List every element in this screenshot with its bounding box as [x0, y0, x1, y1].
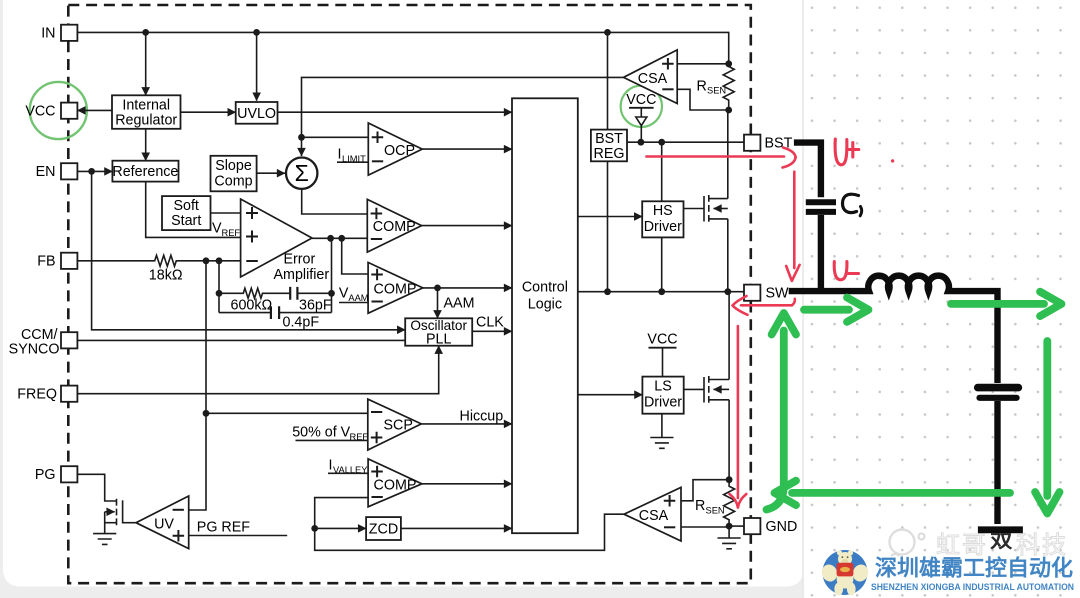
- svg-text:Driver: Driver: [644, 395, 682, 411]
- svg-text:SHENZHEN XIONGBA INDUSTRIAL AU: SHENZHEN XIONGBA INDUSTRIAL AUTOMATION: [871, 582, 1074, 592]
- svg-text:CCM/: CCM/: [21, 327, 58, 343]
- svg-text:VCC: VCC: [647, 331, 677, 347]
- svg-text:SCP: SCP: [384, 418, 413, 434]
- svg-text:COMP: COMP: [374, 477, 417, 493]
- svg-text:REF: REF: [222, 228, 241, 238]
- svg-text:Start: Start: [171, 213, 201, 229]
- svg-text:Comp: Comp: [214, 173, 252, 189]
- svg-text:COMP: COMP: [374, 281, 417, 297]
- svg-text:PG REF: PG REF: [197, 519, 250, 535]
- svg-text:Regulator: Regulator: [115, 113, 177, 129]
- svg-text:SEN: SEN: [707, 86, 726, 96]
- svg-text:UVLO: UVLO: [237, 106, 276, 122]
- svg-text:深圳雄霸工控自动化: 深圳雄霸工控自动化: [875, 556, 1073, 581]
- svg-text:SEN: SEN: [706, 505, 725, 515]
- svg-text:REG: REG: [594, 146, 625, 162]
- svg-text:VCC: VCC: [626, 92, 656, 108]
- svg-text:R: R: [695, 498, 705, 514]
- svg-text:Σ: Σ: [295, 160, 309, 186]
- svg-text:AAM: AAM: [444, 296, 475, 312]
- svg-text:LS: LS: [654, 379, 672, 395]
- svg-text:CLK: CLK: [476, 315, 504, 331]
- svg-text:CSA: CSA: [638, 71, 668, 87]
- svg-text:LIMIT: LIMIT: [342, 154, 366, 164]
- svg-text:R: R: [697, 78, 707, 94]
- svg-text:Amplifier: Amplifier: [274, 267, 330, 283]
- svg-text:SW: SW: [766, 286, 790, 302]
- svg-text:600kΩ: 600kΩ: [231, 298, 273, 314]
- svg-text:VCC: VCC: [25, 104, 55, 120]
- svg-text:Internal: Internal: [122, 98, 170, 114]
- svg-text:PG: PG: [35, 467, 56, 483]
- svg-text:IN: IN: [41, 26, 55, 42]
- svg-text:双: 双: [990, 532, 1013, 552]
- svg-text:ZCD: ZCD: [369, 522, 398, 538]
- svg-text:18kΩ: 18kΩ: [149, 268, 183, 284]
- svg-text:36pF: 36pF: [299, 298, 332, 314]
- svg-text:Hiccup: Hiccup: [460, 408, 504, 424]
- svg-text:V: V: [339, 286, 349, 302]
- svg-text:UV: UV: [154, 516, 174, 532]
- svg-text:VALLEY: VALLEY: [333, 465, 367, 475]
- svg-text:FB: FB: [37, 254, 55, 270]
- svg-text:Driver: Driver: [644, 219, 682, 235]
- svg-text:HS: HS: [653, 203, 673, 219]
- svg-text:Reference: Reference: [112, 164, 178, 180]
- svg-text:BST: BST: [595, 131, 623, 147]
- svg-text:Control: Control: [522, 280, 568, 296]
- svg-text:0.4pF: 0.4pF: [283, 315, 320, 331]
- svg-text:EN: EN: [36, 164, 56, 180]
- svg-text:AAM: AAM: [348, 293, 368, 303]
- svg-text:PLL: PLL: [426, 332, 451, 348]
- svg-text:COMP: COMP: [373, 219, 416, 235]
- svg-text:SYNCO: SYNCO: [9, 342, 60, 358]
- svg-text:50% of V: 50% of V: [292, 425, 350, 441]
- svg-text:I: I: [338, 147, 342, 163]
- svg-text:GND: GND: [766, 519, 798, 535]
- svg-text:OCP: OCP: [384, 143, 415, 159]
- svg-text:Logic: Logic: [528, 297, 562, 313]
- svg-text:CSA: CSA: [639, 508, 669, 524]
- svg-text:REF: REF: [350, 432, 369, 442]
- svg-text:V: V: [212, 221, 222, 237]
- svg-text:Slope: Slope: [215, 158, 252, 174]
- svg-text:FREQ: FREQ: [17, 387, 57, 403]
- svg-text:I: I: [329, 458, 333, 474]
- svg-text:Soft: Soft: [173, 198, 198, 214]
- svg-text:Error: Error: [284, 252, 316, 268]
